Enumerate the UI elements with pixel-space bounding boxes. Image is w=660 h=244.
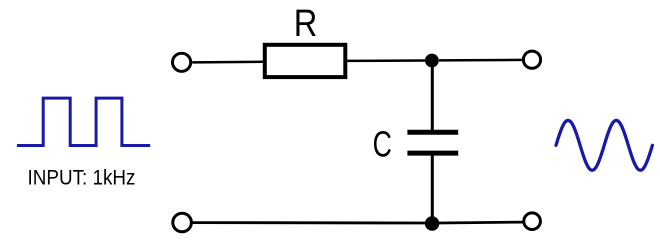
wire: IN- terminal to bottom node xyxy=(193,221,426,224)
wire: bottom node to OUT- terminal xyxy=(439,221,523,225)
output waveform: sine wave xyxy=(556,120,652,170)
node: top junction xyxy=(425,54,439,68)
capacitor C (bottom plate) xyxy=(407,151,458,156)
svg-text:C: C xyxy=(373,123,392,164)
terminal IN+ (top-left open circle) xyxy=(173,53,191,71)
svg-text:INPUT: 1kHz: INPUT: 1kHz xyxy=(28,166,136,190)
input waveform: square wave xyxy=(17,98,150,145)
node: bottom junction xyxy=(425,216,439,230)
capacitor C (top plate) xyxy=(407,130,458,135)
wire: capacitor bottom lead xyxy=(431,156,434,223)
wire: IN+ terminal to resistor left xyxy=(192,61,263,64)
terminal OUT+ (top-right open circle) xyxy=(523,51,540,68)
wire: capacitor top lead xyxy=(431,62,434,130)
svg-text:R: R xyxy=(294,2,318,45)
terminal OUT- (bottom-right open circle) xyxy=(524,213,541,230)
wire: top node to OUT+ terminal xyxy=(439,59,522,62)
wire: resistor right to top node xyxy=(347,59,425,62)
resistor R (body) xyxy=(265,45,346,77)
terminal IN- (bottom-left open circle) xyxy=(173,213,192,232)
